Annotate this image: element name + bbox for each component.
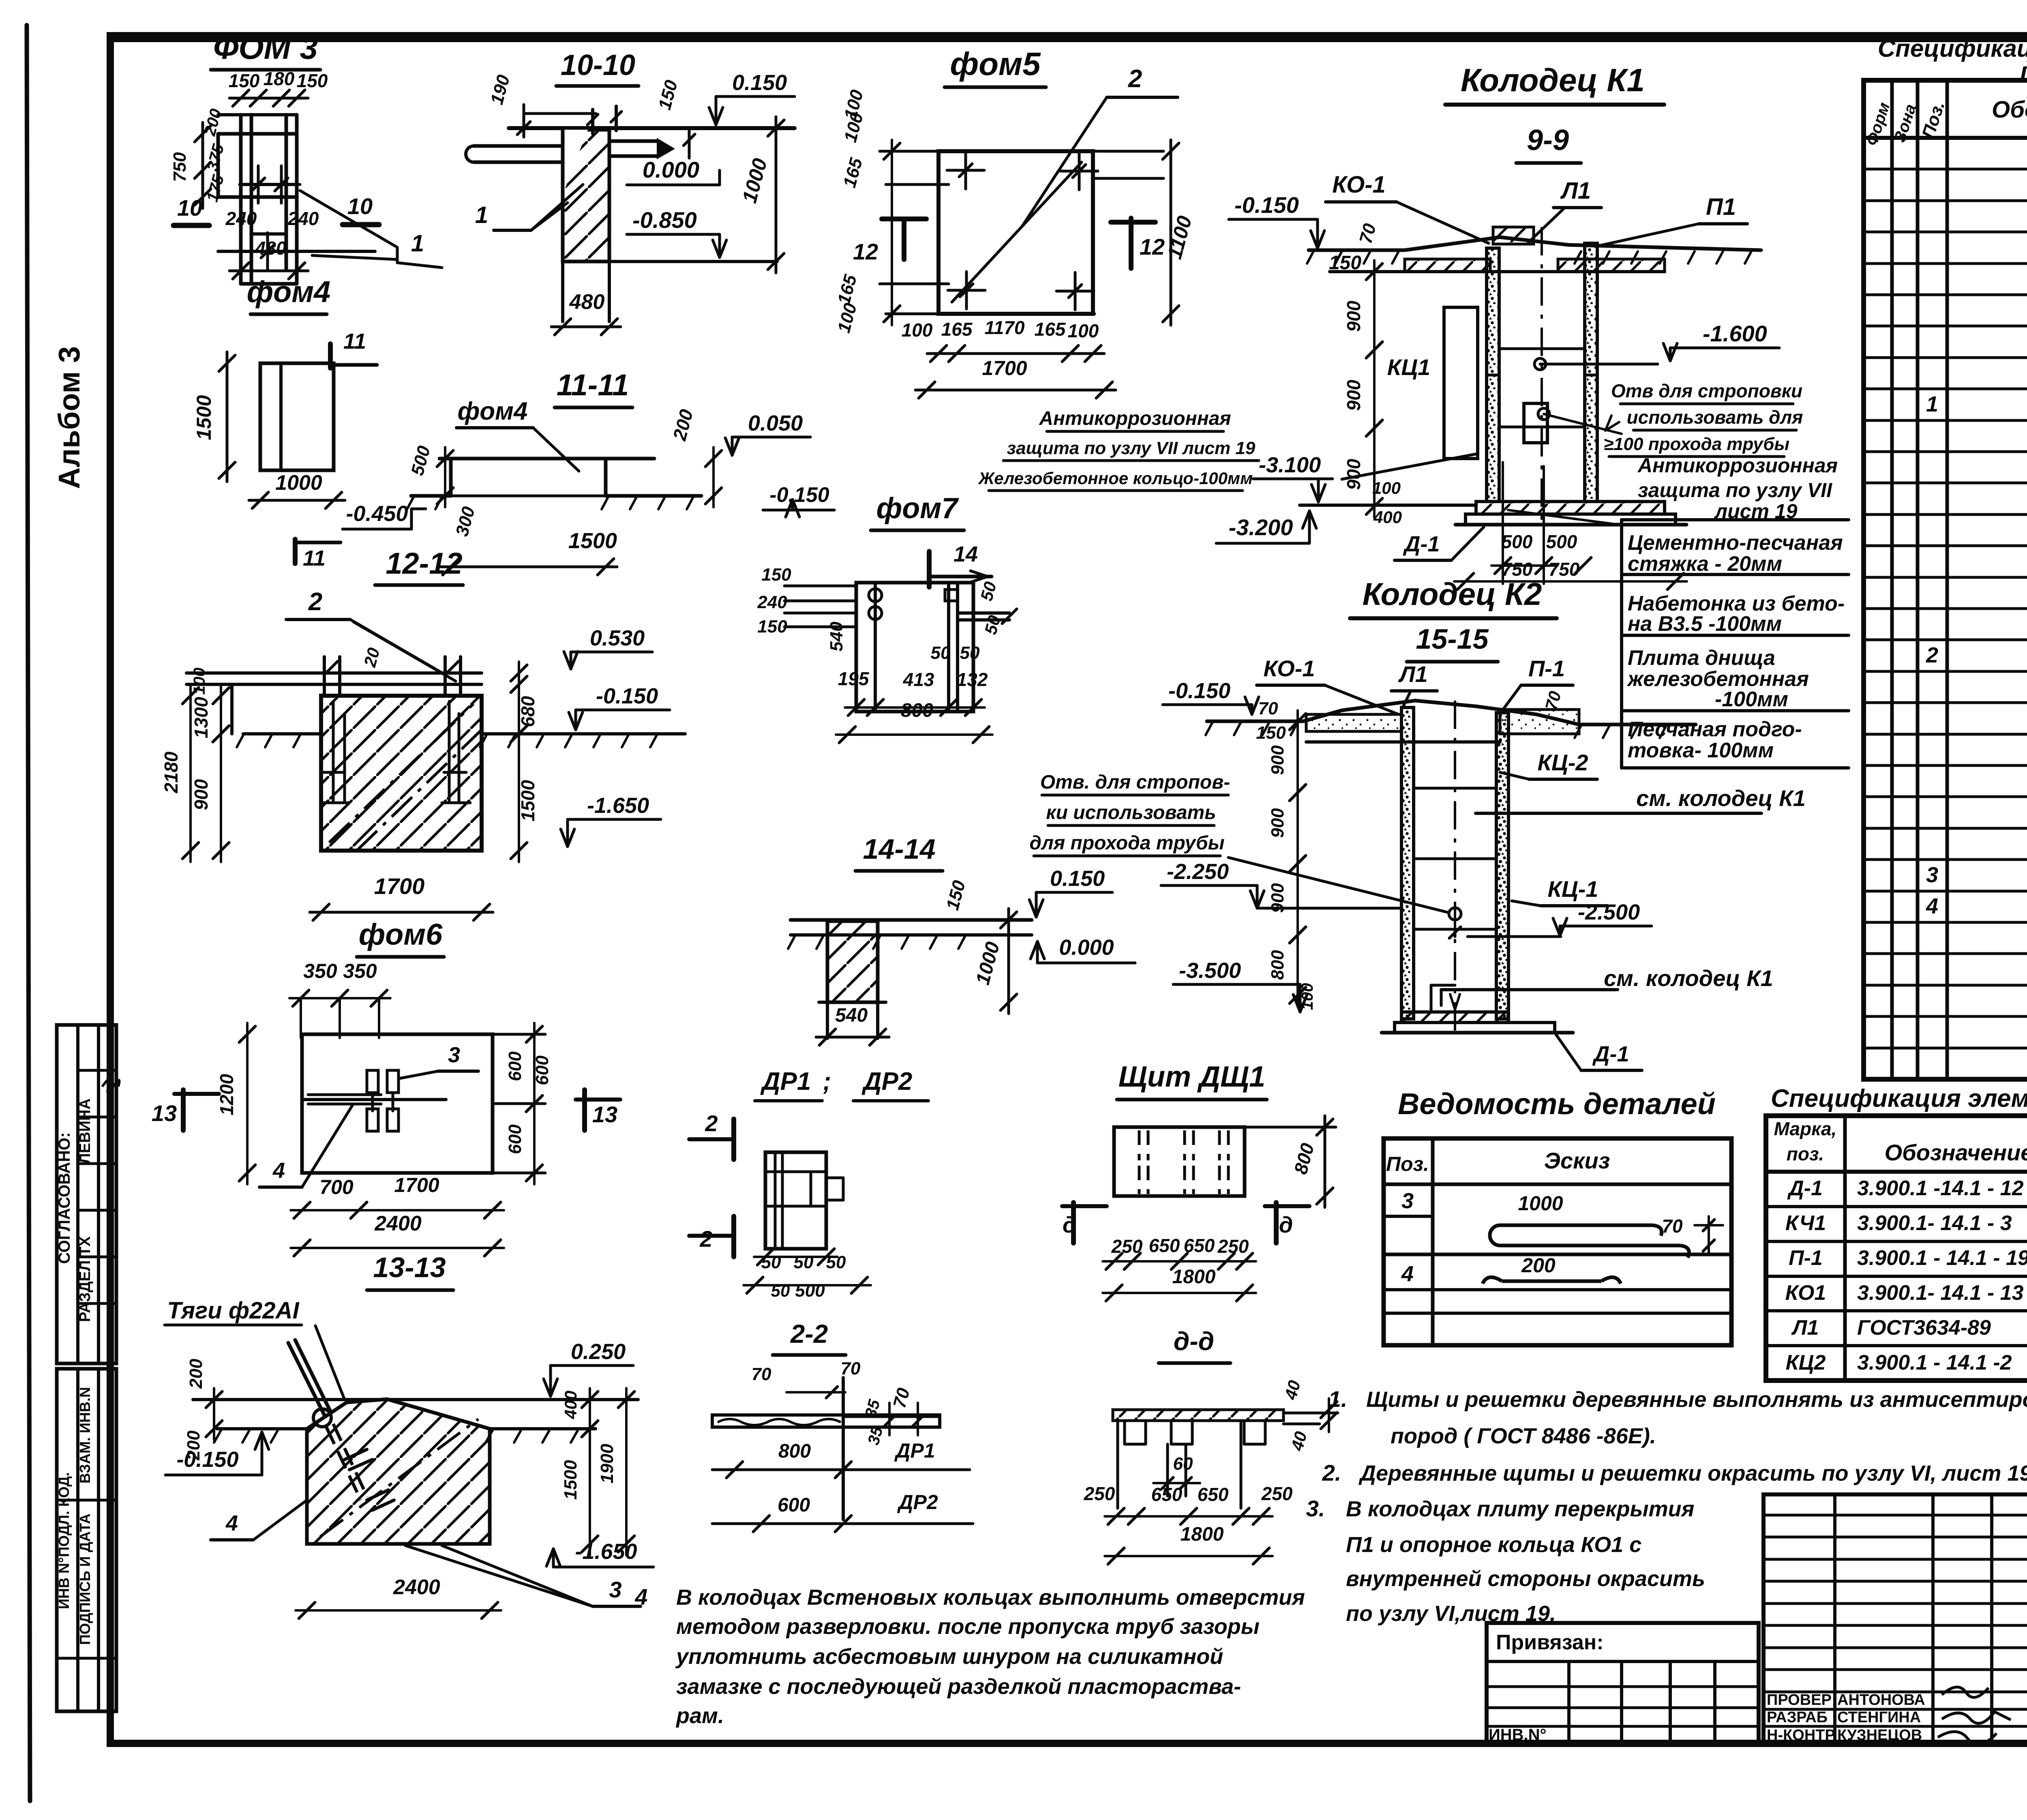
svg-text:В колодцах Встеновых кольцах в: В колодцах Встеновых кольцах выполнить о… — [676, 1585, 1305, 1610]
svg-text:Марка,: Марка, — [1774, 1118, 1837, 1139]
svg-text:3: 3 — [1926, 863, 1938, 887]
personnel signatures — [1942, 1687, 1988, 1697]
svg-text:Л1: Л1 — [1398, 661, 1428, 687]
svg-text:П1: П1 — [1706, 194, 1736, 220]
d-d verticals — [1116, 1421, 1119, 1508]
svg-text:10: 10 — [177, 195, 202, 221]
FOM4 section mark 11 top — [328, 344, 333, 368]
svg-text:ИНВ.N°: ИНВ.N° — [1489, 1726, 1547, 1744]
svg-text:КО1: КО1 — [1785, 1281, 1826, 1305]
svg-text:1700: 1700 — [394, 1174, 439, 1196]
K1 left dim chain — [1373, 260, 1376, 361]
svg-text:10: 10 — [347, 193, 373, 219]
svg-text:70: 70 — [752, 1364, 771, 1384]
svg-text:-3.200: -3.200 — [1229, 514, 1293, 540]
svg-text:480: 480 — [569, 290, 605, 314]
FOM6 right extension — [493, 1033, 545, 1036]
svg-text:11: 11 — [343, 329, 366, 354]
svg-text:Цементно-песчаная: Цементно-песчаная — [1628, 531, 1843, 555]
spec table rows — [1864, 168, 2027, 171]
svg-text:-0.150: -0.150 — [176, 1447, 238, 1472]
svg-text:-0.150: -0.150 — [596, 684, 658, 708]
svg-text:3.900.1- 14.1 - 3: 3.900.1- 14.1 - 3 — [1857, 1211, 2012, 1235]
svg-text:12: 12 — [853, 239, 878, 264]
svg-text:240: 240 — [225, 208, 257, 229]
K1 cover slabs hatched — [1405, 259, 1490, 272]
svg-text:1700: 1700 — [982, 357, 1027, 379]
svg-text:В колодцах плиту перекрытия: В колодцах плиту перекрытия — [1346, 1497, 1694, 1521]
svg-text:1500: 1500 — [568, 529, 617, 553]
svg-text:3.900.1 - 14.1 - 19: 3.900.1 - 14.1 - 19 — [1857, 1246, 2027, 1270]
K2 strop hole — [1449, 908, 1461, 920]
svg-text:132: 132 — [957, 669, 988, 690]
svg-text:ки использовать: ки использовать — [1046, 802, 1216, 823]
svg-text:-1.650: -1.650 — [575, 1539, 637, 1564]
svg-text:1300: 1300 — [191, 697, 212, 738]
svg-text:см. колодец К1: см. колодец К1 — [1604, 965, 1773, 991]
FOM6 dim 1200 — [246, 1023, 249, 1184]
FOM3 leader label 1 — [300, 191, 397, 247]
svg-text:фом7: фом7 — [876, 492, 959, 525]
svg-text:3: 3 — [609, 1577, 621, 1602]
d-d bar — [1113, 1410, 1283, 1421]
svg-text:900: 900 — [191, 779, 212, 810]
svg-text:стяжка - 20мм: стяжка - 20мм — [1628, 552, 1782, 576]
svg-text:4: 4 — [272, 1158, 285, 1183]
svg-text:Д-1: Д-1 — [1592, 1042, 1629, 1066]
svg-text:КЦ1: КЦ1 — [1387, 354, 1430, 380]
svg-text:50: 50 — [761, 1252, 781, 1272]
svg-text:2400: 2400 — [393, 1576, 440, 1599]
svg-text:уплотнить асбестовым шнуром на: уплотнить асбестовым шнуром на силикатно… — [675, 1644, 1223, 1669]
K1 lid cap — [1493, 227, 1534, 244]
svg-text:2180: 2180 — [161, 751, 182, 793]
10-10 ground top line — [509, 126, 795, 130]
svg-text:14-14: 14-14 — [863, 833, 935, 865]
11-11 dim 1500 — [439, 566, 617, 568]
K1 lower ground line — [1300, 504, 1476, 507]
svg-text:ЛЕВИНА: ЛЕВИНА — [77, 1098, 94, 1164]
svg-text:КЦ-1: КЦ-1 — [1547, 876, 1598, 902]
svg-text:600: 600 — [778, 1494, 810, 1516]
svg-text:1800: 1800 — [1172, 1266, 1216, 1288]
svg-text:Ведомость деталей: Ведомость деталей — [1398, 1087, 1716, 1121]
sheet left paper edge line — [27, 25, 30, 1801]
K1 centerline — [1541, 227, 1543, 523]
svg-text:Колодец К2: Колодец К2 — [1363, 576, 1542, 612]
svg-text:100: 100 — [1372, 478, 1401, 497]
svg-text:Поз.: Поз. — [1386, 1153, 1429, 1175]
svg-text:1: 1 — [1926, 392, 1938, 416]
svg-text:70: 70 — [841, 1359, 861, 1378]
svg-text:150: 150 — [229, 70, 260, 91]
svg-text:П-1: П-1 — [1789, 1246, 1823, 1270]
svg-text:фом5: фом5 — [950, 46, 1041, 82]
svg-text:защита по узлу VII лист 19: защита по узлу VII лист 19 — [1007, 438, 1256, 458]
K2 ring joints — [1414, 787, 1496, 790]
K1 shaft walls stippled — [1487, 248, 1499, 502]
svg-text:200: 200 — [186, 1359, 206, 1389]
svg-text:РАЗРАБ: РАЗРАБ — [1767, 1709, 1828, 1726]
svg-text:Щит ДЩ1: Щит ДЩ1 — [1118, 1061, 1265, 1093]
FOM7 bolts — [869, 589, 882, 602]
svg-text:0.250: 0.250 — [571, 1340, 626, 1364]
svg-text:3: 3 — [448, 1043, 460, 1067]
svg-text:2400: 2400 — [374, 1212, 422, 1235]
svg-text:1000: 1000 — [1518, 1192, 1563, 1215]
FOM6 center line and anchors — [302, 1098, 446, 1101]
privyazan box — [1487, 1623, 1759, 1743]
svg-text:600: 600 — [505, 1124, 525, 1154]
13-13 tie rod — [288, 1343, 324, 1415]
12-12 left dim chain — [220, 684, 222, 745]
svg-text:2.: 2. — [1322, 1460, 1341, 1486]
svg-text:2: 2 — [308, 588, 322, 616]
svg-text:11-11: 11-11 — [557, 368, 629, 402]
svg-text:1500: 1500 — [517, 780, 538, 821]
svg-text:413: 413 — [903, 669, 934, 690]
svg-text:1700: 1700 — [374, 873, 425, 899]
svg-text:0.150: 0.150 — [732, 71, 787, 95]
svg-text:100: 100 — [902, 319, 933, 341]
svg-text:100: 100 — [1298, 983, 1316, 1010]
svg-text:ПОДПИСЬ И ДАТА: ПОДПИСЬ И ДАТА — [77, 1513, 93, 1645]
svg-text:на В3.5 -100мм: на В3.5 -100мм — [1628, 612, 1782, 636]
K2 mound and ground — [1303, 701, 1579, 725]
svg-text:-0.450: -0.450 — [346, 502, 408, 526]
svg-text:3: 3 — [1401, 1189, 1414, 1213]
K2 left dim chain — [1296, 710, 1299, 804]
K1 bottom dims 500 500 750 750 — [1502, 462, 1504, 584]
FOM5 plan square — [939, 151, 1093, 314]
2-2 bar drawing — [712, 1415, 940, 1427]
svg-text:195: 195 — [838, 668, 870, 689]
svg-text:50: 50 — [794, 1252, 814, 1272]
svg-text:1: 1 — [411, 230, 424, 257]
svg-text:1000: 1000 — [275, 471, 322, 495]
svg-text:2: 2 — [699, 1226, 712, 1252]
svg-text:650: 650 — [1149, 1235, 1180, 1256]
FOM5 section marks 12 — [882, 217, 926, 221]
svg-text:4: 4 — [1926, 894, 1938, 918]
svg-text:13-13: 13-13 — [373, 1252, 446, 1283]
svg-text:см. колодец К1: см. колодец К1 — [1636, 785, 1806, 811]
svg-text:150: 150 — [297, 70, 328, 91]
svg-text:50: 50 — [931, 643, 951, 663]
svg-text:13: 13 — [152, 1100, 177, 1126]
svg-text:0.530: 0.530 — [590, 626, 645, 650]
svg-text:СТЕНГИНА: СТЕНГИНА — [1837, 1709, 1921, 1726]
svg-text:680: 680 — [517, 696, 538, 727]
svg-text:≥100 прохода трубы: ≥100 прохода трубы — [1604, 434, 1789, 454]
svg-text:2: 2 — [705, 1110, 718, 1136]
svg-text:600: 600 — [532, 1055, 552, 1085]
svg-text:-0.150: -0.150 — [769, 483, 829, 507]
svg-text:замазке с последующей разделко: замазке с последующей разделкой пластора… — [676, 1674, 1241, 1699]
svg-text:1170: 1170 — [985, 317, 1025, 338]
svg-text:3.900.1- 14.1 - 13: 3.900.1- 14.1 - 13 — [1857, 1281, 2024, 1305]
FOM4 section mark 11 bottom — [293, 539, 298, 564]
vedomost table frame — [1384, 1138, 1731, 1345]
FOM7 pipe right — [958, 611, 1009, 615]
10-10 pipe left — [474, 144, 563, 148]
svg-text:500: 500 — [795, 1281, 825, 1301]
svg-text:2-2: 2-2 — [790, 1319, 828, 1348]
14-14 ground lines — [791, 918, 1032, 922]
svg-text:900: 900 — [1343, 379, 1364, 411]
10-10 top tie line and dim 190 — [524, 112, 596, 115]
svg-text:Л1: Л1 — [1791, 1316, 1819, 1340]
svg-text:240: 240 — [757, 592, 787, 612]
svg-text:600: 600 — [505, 1051, 525, 1081]
sidebar stamp group 1 box — [57, 1025, 116, 1363]
svg-text:150: 150 — [757, 617, 787, 637]
svg-text:Л1: Л1 — [1560, 178, 1591, 204]
svg-text:1900: 1900 — [597, 1444, 617, 1483]
board rectangle with planks — [1114, 1127, 1245, 1196]
13-13 ground top line 0.250 level — [193, 1398, 638, 1401]
svg-text:540: 540 — [835, 1005, 868, 1026]
svg-text:Привязан:: Привязан: — [1496, 1631, 1604, 1654]
13-13 ground line — [217, 1427, 307, 1430]
13-13 right dims 400 1500 1900 — [589, 1388, 591, 1440]
svg-text:150: 150 — [761, 565, 791, 585]
svg-text:900: 900 — [1343, 300, 1364, 332]
svg-text:540: 540 — [827, 622, 846, 652]
svg-text:КЦ2: КЦ2 — [1786, 1351, 1826, 1374]
svg-text:480: 480 — [255, 238, 287, 259]
svg-text:-2.250: -2.250 — [1167, 860, 1229, 884]
FOM5 right dim 1100 — [1170, 140, 1172, 325]
svg-text:700: 700 — [319, 1176, 354, 1198]
FOM3 anchor bolts — [240, 183, 277, 186]
svg-text:3.900.1 - 14.1 -2: 3.900.1 - 14.1 -2 — [1857, 1351, 2012, 1374]
svg-text:д: д — [1279, 1212, 1293, 1237]
K1 ground and cover — [1309, 249, 1405, 252]
svg-text:ГОСТ3634-89: ГОСТ3634-89 — [1857, 1316, 1991, 1340]
svg-text:Антикоррозионная: Антикоррозионная — [1637, 454, 1838, 477]
svg-text:Спецификация монолитных фундам: Спецификация монолитных фундаментов — [1878, 35, 2027, 62]
svg-text:500: 500 — [1502, 531, 1533, 552]
11-11 soil hatch — [407, 497, 414, 509]
svg-text:-3.500: -3.500 — [1179, 958, 1241, 983]
svg-text:Альбом 3: Альбом 3 — [52, 346, 86, 489]
14-14 dim 1000 — [1007, 909, 1010, 1014]
svg-text:400: 400 — [561, 1391, 580, 1419]
svg-text:0.050: 0.050 — [748, 411, 803, 435]
svg-text:Эскиз: Эскиз — [1544, 1148, 1610, 1173]
svg-text:250: 250 — [1084, 1483, 1115, 1504]
svg-text:4: 4 — [225, 1511, 238, 1535]
svg-text:200: 200 — [1521, 1254, 1556, 1277]
svg-text:-1.600: -1.600 — [1703, 321, 1767, 346]
svg-text:КЦ-2: КЦ-2 — [1537, 750, 1588, 775]
svg-text:900: 900 — [1268, 883, 1288, 913]
svg-text:фом6: фом6 — [359, 918, 443, 951]
svg-text:фом4: фом4 — [247, 275, 331, 309]
svg-text:Обозначение: Обозначение — [1992, 96, 2027, 123]
svg-text:Отв. для стропов-: Отв. для стропов- — [1040, 772, 1230, 793]
10-10 hatched column — [563, 130, 609, 262]
svg-text:4: 4 — [1401, 1262, 1414, 1286]
svg-text:П1 и опорное кольца КО1 с: П1 и опорное кольца КО1 с — [1346, 1533, 1641, 1557]
svg-text:900: 900 — [1268, 745, 1288, 775]
board dim 800 — [1245, 1126, 1336, 1129]
svg-text:650: 650 — [1151, 1484, 1183, 1505]
svg-text:ДР2: ДР2 — [861, 1068, 913, 1095]
sidebar stamp group 2 box — [57, 1369, 116, 1711]
FOM6 plan rectangle — [302, 1034, 493, 1173]
FOM3 plan grid — [218, 132, 297, 136]
svg-text:4: 4 — [634, 1584, 647, 1610]
svg-text:70: 70 — [1258, 699, 1278, 718]
14-14 hatched column — [827, 921, 878, 1002]
svg-text:9-9: 9-9 — [1527, 124, 1569, 156]
svg-text:15-15: 15-15 — [1416, 623, 1489, 655]
svg-text:165: 165 — [1035, 319, 1066, 340]
svg-text:ДР1: ДР1 — [894, 1439, 935, 1462]
12-12 top lines and bolts — [186, 671, 482, 675]
11-11 foundation block — [439, 457, 654, 461]
svg-text:100: 100 — [1068, 320, 1099, 341]
K2 base inner mark — [1430, 985, 1433, 1012]
K2 centerline — [1454, 701, 1456, 1038]
svg-text:350: 350 — [343, 960, 377, 982]
svg-text:Тяги ф22АI: Тяги ф22АI — [167, 1297, 300, 1324]
10-10 pipe right — [609, 139, 657, 143]
svg-text:-0.150: -0.150 — [1168, 679, 1230, 703]
K1 ring joint lines — [1499, 347, 1585, 350]
svg-text:60: 60 — [1173, 1454, 1193, 1474]
FOM6 dims 600 600 — [533, 1023, 536, 1115]
svg-text:Д-1: Д-1 — [1787, 1177, 1823, 1200]
svg-text:РАЗДЕЛ ТХ: РАЗДЕЛ ТХ — [77, 1236, 94, 1322]
svg-text:КЧ1: КЧ1 — [1785, 1211, 1826, 1235]
svg-text:АНТОНОВА: АНТОНОВА — [1837, 1691, 1925, 1709]
12-12 inner anchor bars — [332, 701, 335, 803]
svg-text:КУЗНЕЦОВ: КУЗНЕЦОВ — [1837, 1727, 1922, 1744]
FOM5 diagonal — [952, 162, 1082, 302]
svg-text:240: 240 — [287, 208, 319, 229]
svg-text:товка- 100мм: товка- 100мм — [1628, 739, 1774, 762]
FOM5 extension lines — [880, 150, 939, 153]
svg-text:П-1: П-1 — [1528, 656, 1565, 681]
10-10 anchor bolt stubs — [591, 109, 594, 134]
svg-text:-0.850: -0.850 — [632, 207, 697, 233]
svg-text:Железобетонное кольцо-100мм: Железобетонное кольцо-100мм — [978, 469, 1253, 488]
12-12 dim 1700 — [310, 911, 493, 914]
svg-text:12-12: 12-12 — [386, 547, 462, 580]
K1 base slab — [1476, 502, 1665, 514]
K1 right list table lines — [1622, 518, 1849, 521]
svg-text:3.: 3. — [1306, 1496, 1325, 1521]
svg-text:165: 165 — [941, 319, 973, 340]
svg-text:800: 800 — [901, 700, 933, 721]
FOM7 plan — [856, 583, 973, 712]
svg-text:;: ; — [823, 1068, 831, 1095]
svg-text:КО-1: КО-1 — [1263, 656, 1315, 681]
svg-text:0.150: 0.150 — [1050, 866, 1105, 891]
svg-text:400: 400 — [1373, 508, 1402, 527]
svg-text:Антикоррозионная: Антикоррозионная — [1039, 408, 1231, 429]
svg-text:КО-1: КО-1 — [1332, 171, 1386, 198]
svg-text:д-д: д-д — [1174, 1327, 1214, 1356]
svg-text:11: 11 — [303, 546, 326, 570]
svg-text:1: 1 — [475, 202, 488, 228]
svg-text:Н-КОНТР: Н-КОНТР — [1767, 1727, 1835, 1744]
svg-text:-1.650: -1.650 — [587, 793, 649, 818]
svg-text:0.000: 0.000 — [1059, 935, 1114, 960]
svg-text:100: 100 — [191, 668, 208, 695]
svg-text:поз.: поз. — [1787, 1143, 1824, 1164]
10-10 dim 1000 — [775, 117, 778, 273]
sidebar signature squiggle — [102, 1078, 119, 1092]
svg-text:защита по узлу VII: защита по узлу VII — [1638, 479, 1832, 502]
svg-text:900: 900 — [1268, 808, 1288, 838]
svg-text:50: 50 — [960, 643, 980, 663]
svg-text:-0.150: -0.150 — [1234, 192, 1299, 218]
svg-text:750: 750 — [170, 152, 190, 182]
svg-text:Плита днища: Плита днища — [1628, 646, 1775, 670]
svg-text:1800: 1800 — [1181, 1524, 1224, 1545]
svg-text:750: 750 — [1549, 559, 1580, 580]
svg-text:ПРОВЕР: ПРОВЕР — [1767, 1691, 1832, 1709]
svg-text:-100мм: -100мм — [1715, 688, 1788, 711]
svg-text:150: 150 — [1256, 723, 1286, 743]
svg-text:использовать для: использовать для — [1627, 407, 1803, 428]
DR1 drawing — [765, 1152, 826, 1249]
svg-text:Песчаная подго-: Песчаная подго- — [1628, 718, 1802, 741]
svg-text:рам.: рам. — [675, 1704, 724, 1728]
svg-text:1500: 1500 — [193, 395, 215, 440]
FOM3 left dim chain — [201, 122, 204, 208]
svg-text:12: 12 — [1140, 234, 1165, 259]
2-2 centerline — [842, 1378, 845, 1520]
K2 cover sand stipple bands — [1306, 714, 1401, 731]
K2 shaft walls stippled — [1401, 707, 1414, 1019]
FOM3 lower column — [250, 270, 253, 284]
svg-text:фом4: фом4 — [457, 397, 527, 425]
svg-text:14: 14 — [954, 542, 978, 566]
FOM3 top dimension line — [229, 97, 308, 100]
svg-text:для прохода трубы: для прохода трубы — [1029, 832, 1224, 854]
svg-text:13: 13 — [592, 1102, 617, 1127]
svg-text:ИНВ N°ПОДЛ. КОД.: ИНВ N°ПОДЛ. КОД. — [56, 1472, 72, 1609]
svg-text:Щиты и решетки деревянные выпо: Щиты и решетки деревянные выполнять из а… — [1366, 1387, 2027, 1412]
12-12 right dim chain — [518, 662, 520, 696]
svg-text:ДР1: ДР1 — [760, 1068, 811, 1095]
K2 base slab — [1401, 1012, 1508, 1023]
svg-text:1500: 1500 — [561, 1460, 581, 1500]
svg-text:СОГЛАСОВАНО:: СОГЛАСОВАНО: — [56, 1132, 73, 1264]
13-13 foundation block hatched — [307, 1399, 490, 1544]
svg-text:Обозначение: Обозначение — [1885, 1140, 2027, 1165]
svg-text:Д-1: Д-1 — [1403, 532, 1440, 556]
element spec table frame — [1766, 1116, 2027, 1381]
svg-text:150: 150 — [1329, 252, 1361, 274]
svg-text:ДР2: ДР2 — [897, 1491, 938, 1513]
svg-text:ВЗАМ. ИНВ.N: ВЗАМ. ИНВ.N — [77, 1387, 93, 1483]
svg-text:Отв для строповки: Отв для строповки — [1611, 380, 1802, 401]
svg-text:250: 250 — [1261, 1483, 1293, 1504]
svg-text:Спецификация элементов колодц: Спецификация элементов колодца К1 и К2 — [1771, 1085, 2027, 1113]
svg-text:800: 800 — [778, 1441, 811, 1462]
svg-text:ФОМ 3: ФОМ 3 — [213, 30, 318, 66]
svg-text:-3.100: -3.100 — [1259, 453, 1321, 477]
svg-text:0.000: 0.000 — [643, 157, 699, 182]
svg-text:методом разверловки. после про: методом разверловки. после пропуска труб… — [676, 1614, 1260, 1639]
svg-text:пород ( ГОСТ 8486 -86Е).: пород ( ГОСТ 8486 -86Е). — [1391, 1424, 1656, 1448]
